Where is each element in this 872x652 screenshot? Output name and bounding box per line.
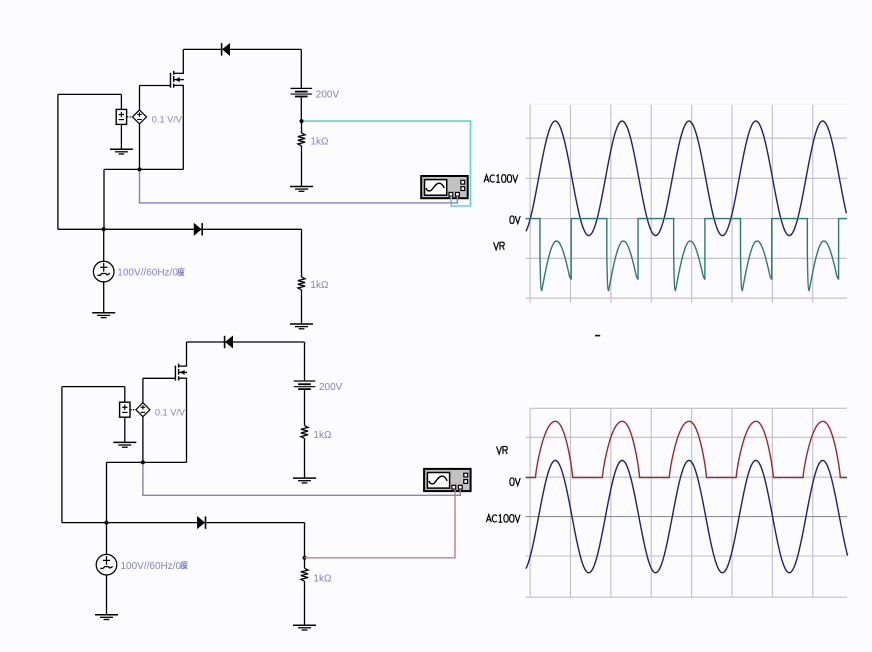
junction dot AC rail 2	[105, 521, 109, 525]
ground under R1	[290, 187, 313, 192]
svg-text:0.1 V/V: 0.1 V/V	[152, 115, 183, 125]
svg-text:1kΩ: 1kΩ	[310, 280, 329, 291]
minus dash mark	[595, 335, 600, 337]
svg-text:100V//60Hz/0: 100V//60Hz/0	[121, 561, 182, 572]
svg-text:1kΩ: 1kΩ	[310, 136, 329, 147]
label 0V panel 2	[510, 478, 520, 486]
label 1k&#937; for R3	[313, 430, 332, 441]
AC source V4	[96, 554, 117, 575]
wire R4 to ground	[304, 581, 306, 625]
label 1k&#937; for R4	[313, 574, 332, 585]
ground under R2	[290, 324, 313, 329]
wire node A2 down to AC rail	[106, 462, 108, 522]
label 1k&#937; for R2	[310, 280, 329, 291]
grid of waveform panel 2	[526, 408, 848, 597]
label 100V/60Hz/0deg for V4	[121, 561, 188, 572]
wire gate of Q2 to controlled source E2	[143, 378, 176, 403]
node VB1 dot	[300, 119, 304, 123]
probe wire red node VR2 to SC2 input A	[305, 489, 456, 557]
trace VR panel 2	[526, 421, 848, 477]
wire left loop circuit 2	[62, 387, 125, 523]
wire node row A1	[104, 168, 183, 170]
diode D3	[225, 336, 233, 348]
resistor R2	[298, 277, 305, 290]
label 0V panel 1	[510, 216, 520, 224]
wire top rail of circuit 2	[187, 341, 305, 343]
junction dot AC rail 1	[102, 227, 106, 231]
oscilloscope SC2	[424, 469, 471, 491]
wire battery B2 top	[304, 342, 306, 381]
label AC100V panel 2	[486, 515, 520, 523]
wire node VR2 to R4	[304, 558, 306, 568]
wire battery B1 top	[300, 49, 302, 88]
node A2 junction dot	[141, 460, 145, 464]
label 200V for B2	[319, 382, 343, 393]
value label 0.1 V/V for E1	[152, 115, 183, 125]
diode D1	[222, 43, 230, 55]
node VR2 dot	[303, 556, 307, 560]
ground under V1	[110, 149, 133, 154]
svg-text:1kΩ: 1kΩ	[313, 430, 332, 441]
wire AC rail circuit 2	[62, 522, 305, 524]
ground under V4	[95, 615, 118, 620]
grid of waveform panel 1	[526, 104, 848, 303]
wire B1 to node VB1	[300, 97, 302, 122]
resistor R4	[301, 568, 308, 581]
svg-text:200V: 200V	[319, 382, 343, 393]
probe wire cyan node VB1 to SC1 input A	[304, 121, 471, 206]
ground under R3	[293, 478, 316, 483]
dotted control link V1 to E1	[127, 116, 132, 118]
wire R2 to ground	[301, 290, 303, 324]
wire left loop circuit 1	[58, 94, 122, 229]
ground under V2	[92, 313, 115, 318]
wire V2 to ground	[103, 281, 105, 313]
controlled source E1 (diamond)	[133, 110, 147, 124]
wire gate of Q1 to controlled source E1	[140, 86, 171, 111]
label VR panel 1	[494, 242, 505, 250]
trace VR panel 1	[526, 219, 848, 291]
wire top rail of circuit 1	[183, 48, 301, 50]
value label 0.1 V/V for E2	[155, 408, 186, 418]
label 200V for B1	[316, 89, 340, 100]
node A1 junction dot	[138, 167, 142, 171]
probe wire lavender node A2 to SC2 input B	[143, 464, 460, 495]
oscilloscope SC1	[421, 176, 468, 198]
resistor R3	[301, 426, 308, 439]
wire AC rail circuit 1	[58, 228, 302, 230]
diode D2	[194, 223, 202, 235]
wire B2 to R3	[304, 389, 306, 425]
trace AC100V sine panel 2	[526, 460, 848, 572]
label 1k&#937; for R1	[310, 136, 329, 147]
wire node VB1 to R1	[301, 121, 303, 133]
voltage source V1 (sense rectangle)	[116, 109, 126, 124]
probe wire lavender node A1 to SC1 input B	[140, 171, 458, 203]
AC source V2	[93, 261, 114, 282]
ground under V3	[113, 442, 136, 447]
wire node row A2	[107, 461, 187, 463]
wire R3 to ground	[304, 438, 306, 478]
wire V1 top stub	[120, 94, 122, 109]
label 100V/60Hz/0deg for V2	[117, 268, 184, 279]
voltage source V3 (sense rectangle)	[120, 402, 130, 417]
svg-text:200V: 200V	[316, 89, 340, 100]
transistor Q1 (N-MOSFET)	[171, 71, 184, 88]
wire E2 bottom to node A2	[142, 417, 144, 463]
wire R1 to ground	[301, 146, 303, 187]
label AC100V panel 1	[484, 175, 518, 183]
ground under R4	[293, 625, 316, 630]
wire source of Q1 down	[182, 85, 184, 169]
controlled source E2 (diamond)	[136, 403, 150, 417]
dotted control link V3 to E2	[130, 409, 135, 411]
battery B2 200V	[294, 381, 316, 389]
svg-text:100V//60Hz/0: 100V//60Hz/0	[117, 268, 178, 279]
wire node A1 down to AC rail	[103, 169, 105, 229]
svg-text:1kΩ: 1kΩ	[313, 574, 332, 585]
wire AC rail down to node VR2	[304, 523, 306, 558]
wire E1 bottom to node A1	[139, 124, 141, 169]
wire V1 to ground	[120, 124, 122, 149]
battery B1 200V	[291, 88, 313, 96]
trace AC100V sine panel 1	[526, 121, 846, 236]
wire V3 top stub	[124, 387, 126, 403]
wire V4 to ground	[106, 574, 108, 614]
svg-text:0.1 V/V: 0.1 V/V	[155, 408, 186, 418]
transistor Q2 (N-MOSFET)	[175, 364, 187, 381]
wire source of Q2 down	[186, 378, 188, 462]
wire V3 to ground	[124, 417, 126, 442]
wire AC source V2 top	[103, 229, 105, 261]
wire drain to top rail Q1	[182, 49, 184, 73]
wire drain to top rail Q2	[186, 342, 188, 366]
label VR panel 2	[497, 446, 508, 454]
wire AC rail down to R2	[301, 229, 303, 277]
diode D4	[197, 516, 205, 528]
resistor R1	[298, 133, 305, 146]
wire AC source V4 top	[106, 523, 108, 555]
